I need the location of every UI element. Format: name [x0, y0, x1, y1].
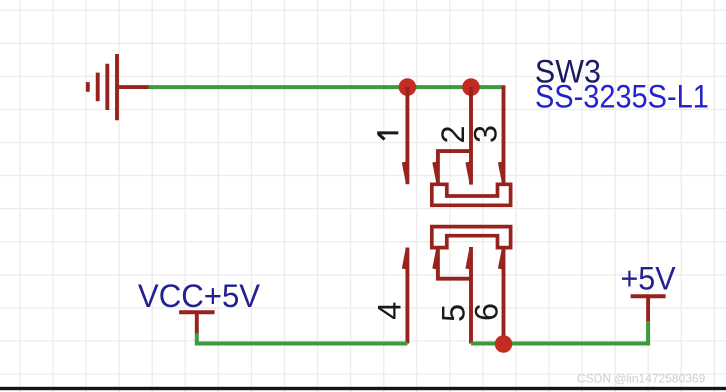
pin 5 [432, 246, 471, 344]
pin 1 [402, 87, 408, 184]
svg-text:3: 3 [467, 125, 503, 143]
svg-text:6: 6 [468, 303, 504, 321]
svg-text:VCC+5V: VCC+5V [138, 278, 261, 314]
svg-text:2: 2 [435, 125, 471, 143]
node junction dot pin6 [495, 335, 513, 353]
node junction dot 2 [462, 78, 480, 96]
svg-text:+5V: +5V [621, 261, 677, 297]
power flag VCC+5V [179, 311, 215, 335]
svg-text:CSDN @lin1472580369: CSDN @lin1472580369 [577, 372, 706, 386]
power flag +5V [631, 295, 666, 323]
svg-text:5: 5 [435, 304, 471, 322]
ground [88, 54, 150, 120]
switch contact bracket bottom [432, 227, 511, 248]
svg-text:4: 4 [372, 302, 408, 320]
node junction dot 1 [399, 78, 417, 96]
pin 3 [498, 86, 504, 187]
pin 2 [432, 87, 471, 186]
pin 4 [402, 248, 408, 344]
pin 6 [498, 248, 504, 344]
switch contact bracket top [432, 184, 511, 205]
svg-text:SS-3235S-L1: SS-3235S-L1 [535, 78, 709, 114]
wire pin5 to +5V [471, 321, 648, 344]
wire VCC to pin4 [197, 333, 408, 344]
pin 1 number [377, 133, 398, 140]
wire GND top [149, 85, 506, 89]
bottom border bar [0, 387, 726, 390]
